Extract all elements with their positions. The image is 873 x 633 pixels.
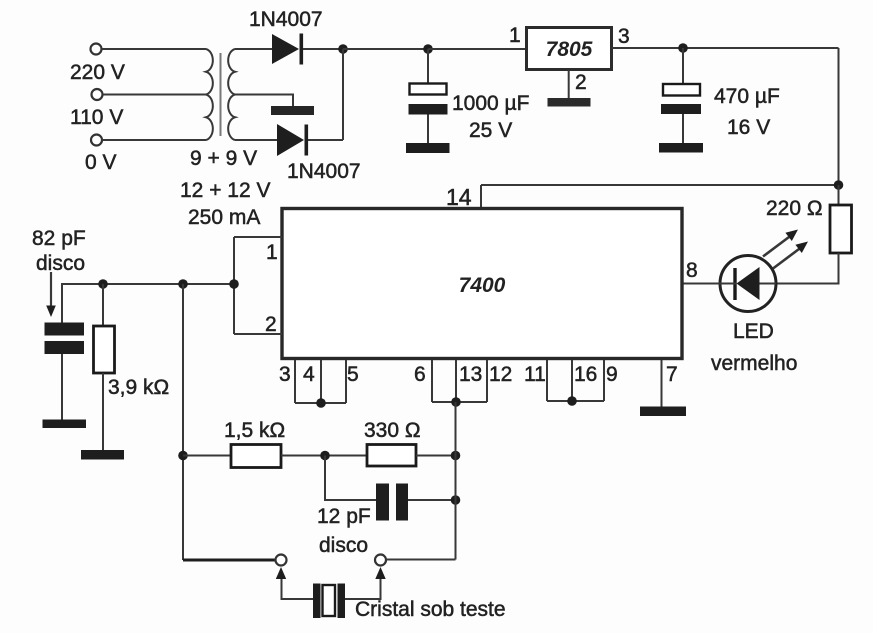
crystal XT1 under test bbox=[313, 584, 345, 619]
svg-text:3: 3 bbox=[618, 25, 630, 48]
svg-text:2: 2 bbox=[265, 313, 277, 336]
junction dot C2 tap bbox=[678, 43, 688, 53]
capacitor C3 82 pF plates bbox=[45, 323, 85, 355]
svg-text:1,5 kΩ: 1,5 kΩ bbox=[224, 419, 285, 442]
svg-text:11: 11 bbox=[524, 363, 546, 386]
transformer T1 secondary winding bbox=[228, 49, 235, 140]
svg-text:9: 9 bbox=[606, 363, 618, 386]
svg-text:330 Ω: 330 Ω bbox=[364, 419, 421, 442]
svg-text:1: 1 bbox=[509, 24, 521, 47]
thick wire to left crystal terminal bbox=[183, 559, 275, 562]
pointer arrow to 82 pF bbox=[46, 272, 56, 317]
pin 7 stub bbox=[661, 360, 663, 407]
svg-text:12 + 12 V: 12 + 12 V bbox=[180, 179, 271, 202]
junction dot 1.5k row bbox=[178, 451, 188, 461]
pins 11-16-9 stubs bbox=[547, 360, 604, 401]
svg-text:8: 8 bbox=[686, 259, 698, 282]
svg-text:Cristal sob teste: Cristal sob teste bbox=[355, 598, 506, 621]
junction dot 330 right bbox=[451, 451, 461, 461]
pin 14 stub bbox=[480, 185, 482, 208]
svg-text:5: 5 bbox=[347, 363, 359, 386]
junction dot pins 6-13-12 bbox=[451, 397, 461, 407]
ground under pin 7 bbox=[640, 407, 686, 417]
LED D3 red bbox=[720, 256, 776, 312]
pins 6-13-12 stubs bbox=[432, 360, 487, 402]
svg-text:7805: 7805 bbox=[546, 38, 593, 61]
terminal 110 V bbox=[92, 89, 103, 100]
LED arrow 1 bbox=[763, 230, 798, 257]
resistor R4 lower lead bbox=[776, 253, 839, 284]
svg-text:16: 16 bbox=[574, 363, 597, 386]
capacitor C2 470uF lead bbox=[682, 48, 684, 84]
pin 2 stub bbox=[568, 70, 570, 98]
capacitor C2 470uF plates bbox=[661, 84, 701, 114]
svg-text:disco: disco bbox=[319, 534, 368, 557]
capacitor C4 12 pF plates bbox=[376, 484, 408, 521]
transformer T1 core bbox=[220, 53, 222, 136]
svg-text:25 V: 25 V bbox=[469, 119, 512, 142]
regulator U2 7805 bbox=[527, 28, 612, 70]
ground under R1 bbox=[81, 450, 124, 460]
wire center tap bbox=[235, 95, 293, 107]
resistor R3 330 ohm bbox=[367, 445, 416, 467]
wire R3 to column bbox=[416, 455, 456, 457]
wire D2 cathode bbox=[308, 139, 343, 141]
wire 0V to transformer bbox=[102, 139, 206, 141]
capacitor C1 lower lead bbox=[427, 115, 429, 144]
junction dot +5V/R220 bbox=[834, 180, 844, 190]
capacitor C1 1000uF plates bbox=[409, 84, 448, 115]
ground under C1 bbox=[406, 143, 450, 153]
oscillator output column bbox=[455, 402, 457, 560]
svg-text:6: 6 bbox=[414, 363, 426, 386]
wire to 7805 pin 1 bbox=[428, 48, 526, 50]
svg-text:vermelho: vermelho bbox=[711, 352, 797, 375]
ground under C2 bbox=[659, 143, 703, 153]
resistor R1 lower lead bbox=[102, 373, 104, 450]
resistor R4 220 ohm upper lead bbox=[838, 185, 840, 205]
IC U1 7400 bbox=[282, 209, 682, 359]
wire D2 output up to node bbox=[342, 49, 344, 140]
svg-text:1000 µF: 1000 µF bbox=[452, 92, 529, 115]
wire to R2 bbox=[183, 455, 231, 457]
svg-text:7400: 7400 bbox=[459, 274, 506, 297]
svg-text:2: 2 bbox=[575, 71, 587, 94]
ground center tap bbox=[271, 106, 314, 115]
right probe lead bbox=[345, 579, 381, 599]
wire node to C1 tap bbox=[343, 48, 428, 50]
svg-text:16 V: 16 V bbox=[727, 116, 770, 139]
wire +5V right rail down bbox=[838, 48, 840, 185]
svg-text:250 mA: 250 mA bbox=[188, 206, 260, 229]
junction dot at feedback column bbox=[178, 279, 188, 289]
capacitor C1 1000uF lead bbox=[427, 49, 429, 84]
wire pin 8 to LED bbox=[682, 283, 720, 285]
node line oscillator input bbox=[62, 284, 234, 323]
wire 7805 pin3 to corner bbox=[612, 47, 839, 49]
bracket pins 1-2 bbox=[233, 237, 235, 334]
pins 3-4-5 stubs bbox=[295, 360, 346, 403]
capacitor C4 right lead bbox=[408, 499, 456, 501]
right probe arrow bbox=[375, 567, 385, 579]
svg-text:220 Ω: 220 Ω bbox=[766, 197, 823, 220]
svg-text:9 + 9 V: 9 + 9 V bbox=[190, 147, 257, 170]
pin 2 wire bbox=[234, 333, 282, 335]
svg-text:470 µF: 470 µF bbox=[714, 85, 780, 108]
capacitor C4 12pF left lead bbox=[325, 456, 376, 501]
svg-text:7: 7 bbox=[666, 363, 678, 386]
svg-text:disco: disco bbox=[36, 252, 85, 275]
junction dot pins 3-4-5 bbox=[316, 398, 326, 408]
svg-text:0 V: 0 V bbox=[85, 151, 117, 174]
resistor R2 1.5k bbox=[231, 445, 281, 468]
svg-text:110 V: 110 V bbox=[70, 106, 123, 129]
wire secondary bottom to D2 bbox=[235, 139, 277, 141]
resistor R4 220 ohm bbox=[830, 205, 852, 253]
svg-text:LED: LED bbox=[733, 320, 774, 343]
wire R2 to R3 bbox=[281, 455, 367, 457]
right crystal terminal bbox=[375, 555, 386, 566]
left probe lead bbox=[282, 579, 314, 599]
terminal 220 V bbox=[91, 44, 102, 55]
wire secondary top to D1 bbox=[235, 48, 272, 50]
junction dot 12pF right bbox=[451, 495, 461, 505]
pin 1 wire bbox=[234, 236, 282, 238]
wire 110V to transformer bbox=[103, 94, 206, 96]
resistor R1 3.9k upper lead bbox=[102, 284, 104, 326]
junction dot rectifier output bbox=[338, 44, 348, 54]
ground under C3 bbox=[43, 420, 87, 429]
junction dot at bracket bbox=[229, 279, 239, 289]
svg-text:1N4007: 1N4007 bbox=[249, 8, 323, 31]
transformer T1 primary winding bbox=[206, 49, 213, 140]
svg-text:220 V: 220 V bbox=[70, 61, 125, 84]
left probe arrow bbox=[276, 567, 286, 579]
feedback column wire bbox=[182, 284, 184, 560]
wire D1 cathode to node bbox=[303, 48, 343, 50]
svg-text:3,9 kΩ: 3,9 kΩ bbox=[108, 376, 169, 399]
junction dot pins 11-16-9 bbox=[567, 396, 577, 406]
capacitor C2 lower lead bbox=[682, 114, 684, 143]
diode D2 1N4007 bbox=[277, 124, 308, 156]
svg-text:1N4007: 1N4007 bbox=[287, 160, 361, 183]
svg-text:4: 4 bbox=[303, 363, 315, 386]
svg-text:13: 13 bbox=[459, 363, 482, 386]
junction dot 12pF left bbox=[320, 451, 330, 461]
svg-text:82 pF: 82 pF bbox=[32, 227, 86, 250]
junction dot C1 tap bbox=[423, 44, 433, 54]
svg-text:12 pF: 12 pF bbox=[317, 505, 371, 528]
wire 220V to transformer bbox=[102, 48, 206, 50]
svg-text:14: 14 bbox=[446, 184, 472, 210]
svg-text:12: 12 bbox=[489, 363, 512, 386]
svg-text:3: 3 bbox=[279, 363, 291, 386]
ground under 7805 bbox=[548, 98, 591, 107]
capacitor C3 lower lead bbox=[61, 354, 63, 420]
left crystal terminal bbox=[276, 555, 287, 566]
svg-text:1: 1 bbox=[266, 241, 278, 264]
wire column to right crystal terminal bbox=[387, 559, 456, 561]
LED arrow 2 bbox=[773, 242, 808, 269]
terminal 0 V bbox=[91, 135, 102, 146]
junction dot at 3.9k bbox=[98, 279, 108, 289]
wire pin 14 row bbox=[481, 184, 839, 186]
resistor R1 3.9k bbox=[94, 326, 115, 373]
diode D1 1N4007 bbox=[272, 34, 303, 65]
